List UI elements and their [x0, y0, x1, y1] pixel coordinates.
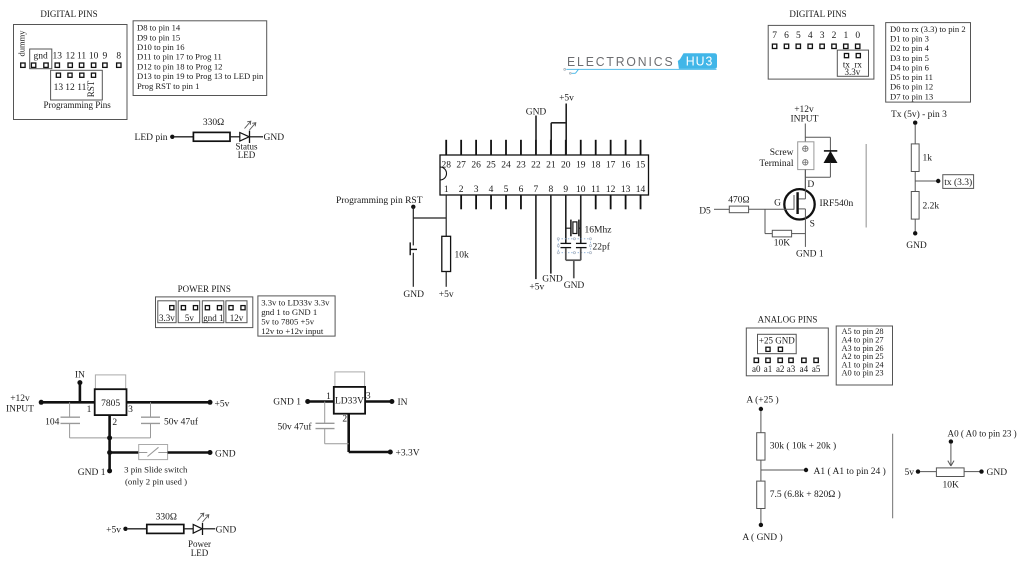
screw terminal box [798, 142, 814, 170]
resistor 330ohm power body [147, 525, 184, 534]
svg-text:1: 1 [444, 185, 449, 195]
resistor 470ohm body [729, 206, 748, 213]
svg-text:2: 2 [832, 31, 837, 41]
analog mapping table box [836, 326, 892, 385]
svg-text:9: 9 [103, 51, 108, 61]
wire 470 resistor to gate [749, 208, 794, 210]
svg-text:LED: LED [238, 150, 256, 160]
power pin 3.3v box [158, 301, 176, 323]
svg-text:GND: GND [264, 133, 285, 143]
svg-text:GND: GND [906, 241, 927, 251]
svg-text:Screw: Screw [770, 148, 794, 158]
svg-text:+5v: +5v [439, 290, 454, 300]
svg-text:27: 27 [456, 161, 466, 171]
svg-text:GND: GND [216, 526, 237, 536]
ground rail under 7805 [70, 437, 151, 439]
wire A(+25) to 30k [760, 411, 762, 433]
svg-text:19: 19 [576, 161, 586, 171]
node GND dot (slide switch) [208, 450, 213, 455]
svg-text:1: 1 [843, 31, 848, 41]
svg-text:ANALOG PINS: ANALOG PINS [758, 314, 818, 324]
slide switch box [139, 445, 168, 460]
capacitor 50v 47uf branch (ld33v) [324, 402, 326, 424]
capacitor 22pf right [576, 242, 587, 244]
right digital pins box [768, 25, 874, 79]
wire power LED to GND [203, 528, 216, 530]
wire 10K to source [792, 233, 806, 235]
svg-text:12v: 12v [230, 313, 244, 323]
svg-text:10: 10 [576, 185, 586, 195]
wire +12v input down [804, 124, 806, 142]
svg-text:a0: a0 [752, 364, 761, 374]
svg-text:gnd: gnd [33, 51, 48, 61]
svg-text:GND 1: GND 1 [273, 398, 301, 408]
programming pins box [51, 70, 103, 100]
svg-text:Terminal: Terminal [759, 159, 794, 169]
logo underline trace [566, 68, 716, 71]
wire RST dot down [412, 207, 414, 218]
push button switch [409, 242, 411, 255]
flyback diode [824, 150, 837, 152]
node A (GND) dot [759, 523, 763, 527]
svg-text:1: 1 [326, 392, 331, 402]
svg-text:23: 23 [516, 161, 526, 171]
wire resistor to power LED [184, 528, 193, 530]
svg-text:16: 16 [621, 161, 631, 171]
svg-text:D13 to pin 19 to Prog 13 to LE: D13 to pin 19 to Prog 13 to LED pin [137, 71, 264, 81]
svg-text:D6 to pin 12: D6 to pin 12 [890, 82, 933, 92]
svg-text:7: 7 [772, 31, 777, 41]
svg-text:6: 6 [519, 185, 524, 195]
svg-text:+3.3V: +3.3V [396, 448, 420, 458]
left digital pin mapping table box [133, 21, 267, 96]
svg-text:7: 7 [534, 185, 539, 195]
svg-text:22: 22 [531, 161, 541, 171]
crystal 16Mhz symbol [566, 227, 571, 229]
wire LED to GND [250, 136, 264, 138]
screw terminal screws [803, 146, 808, 151]
wire pin 10 down [580, 195, 582, 243]
svg-text:D3 to pin 5: D3 to pin 5 [890, 53, 929, 63]
left digital pins header box [14, 25, 128, 120]
svg-text:A0 ( A0 to pin 23 ): A0 ( A0 to pin 23 ) [948, 428, 1017, 438]
svg-text:50v 47uf: 50v 47uf [277, 421, 312, 432]
capacitor 22pf left [561, 242, 572, 244]
wire tap to A1 [761, 469, 804, 471]
svg-text:POWER PINS: POWER PINS [178, 284, 231, 294]
analog pins outer box [746, 328, 828, 376]
svg-text:LED pin: LED pin [135, 133, 168, 143]
wiper arrow [950, 444, 952, 466]
svg-text:DIGITAL PINS: DIGITAL PINS [789, 9, 846, 19]
svg-text:a2: a2 [776, 364, 785, 374]
mosfet IRF540n circle [784, 189, 814, 219]
node 5v dot (pot) [916, 469, 920, 473]
svg-text:A0 to pin 23: A0 to pin 23 [842, 369, 884, 378]
svg-text:1k: 1k [923, 154, 933, 164]
svg-text:A ( GND ): A ( GND ) [742, 532, 782, 543]
gnd box [30, 49, 52, 69]
potentiometer 10K body [936, 468, 964, 477]
svg-text:104: 104 [45, 418, 60, 428]
wire pin 1 down [445, 195, 447, 236]
svg-text:tx (3.3): tx (3.3) [944, 177, 972, 188]
wire gate junction down to 10K [764, 209, 766, 233]
svg-text:IN: IN [398, 398, 408, 408]
header pin row pads [21, 63, 25, 67]
status LED arrows [245, 122, 251, 129]
svg-text:3: 3 [474, 185, 479, 195]
wire slide switch to GND [168, 451, 210, 454]
svg-text:26: 26 [471, 161, 481, 171]
analog pin pads [754, 358, 758, 362]
wire diode branch bottom [829, 163, 831, 178]
right mapping table box [886, 23, 971, 103]
wire junction to tx(3.3) tap [915, 180, 936, 182]
IC U1 notch [440, 167, 447, 180]
wire 30k to 7.5 [760, 460, 762, 481]
node GND dot (divider) [913, 231, 917, 235]
regulator 7805 tab [95, 375, 125, 389]
svg-text:+5v: +5v [215, 399, 230, 409]
svg-text:a5: a5 [812, 364, 821, 374]
svg-text:10K: 10K [943, 481, 960, 491]
svg-text:D1 to pin 3: D1 to pin 3 [890, 33, 929, 43]
svg-text:11: 11 [591, 185, 600, 195]
svg-text:dummy: dummy [17, 30, 27, 57]
svg-text:5v: 5v [185, 313, 195, 323]
svg-text:+12v: +12v [794, 105, 814, 115]
svg-text:D0 to rx (3.3) to pin 2: D0 to rx (3.3) to pin 2 [890, 24, 966, 34]
svg-text:a1: a1 [764, 364, 773, 374]
wire gnd rail to slide switch [110, 451, 139, 454]
svg-text:IRF540n: IRF540n [820, 199, 854, 209]
svg-text:0: 0 [855, 31, 860, 41]
svg-text:GND 1: GND 1 [78, 468, 106, 478]
wire +5v to resistor (power led) [128, 528, 147, 530]
node RST dot [411, 205, 415, 209]
power pins mapping table box [258, 296, 335, 336]
svg-text:D: D [807, 180, 814, 190]
svg-text:GND: GND [564, 281, 585, 291]
node +3.3V dot [388, 450, 393, 455]
svg-text:D8 to pin 14: D8 to pin 14 [137, 23, 181, 33]
svg-text:Tx (5v) - pin 3: Tx (5v) - pin 3 [891, 109, 947, 120]
svg-text:12: 12 [65, 51, 75, 61]
IC top pin stubs [445, 140, 447, 155]
wire 1k to junction to 2.2k [914, 172, 916, 192]
svg-text:Programming Pins: Programming Pins [43, 100, 111, 110]
wire 7805 pin2 down to GND 1 [108, 415, 111, 471]
svg-text:5v to 7805 +5v: 5v to 7805 +5v [261, 317, 315, 327]
svg-text:A (+25 ): A (+25 ) [746, 394, 778, 405]
wire RST to pin 1 column [413, 217, 446, 219]
node A (+25) dot [759, 407, 763, 411]
regulator LD33V tab [335, 372, 365, 387]
wire diode branch top [805, 136, 830, 138]
node IN dot (ld33v) [389, 399, 394, 404]
svg-text:INPUT: INPUT [6, 404, 34, 414]
svg-text:10k: 10k [455, 251, 470, 261]
svg-text:13: 13 [54, 83, 64, 93]
svg-text:4: 4 [808, 31, 813, 41]
svg-text:GND: GND [542, 275, 563, 285]
power pin gnd 1 box [202, 301, 224, 323]
node LED pin dot [170, 135, 174, 139]
wire pin 22 to GND [535, 116, 537, 156]
status LED diode symbol [240, 133, 249, 142]
svg-text:GND: GND [987, 468, 1008, 478]
svg-text:IN: IN [75, 371, 85, 381]
power LED arrows [198, 514, 204, 521]
wire caps to GND [565, 248, 567, 260]
power pin 5v box [178, 301, 200, 323]
svg-text:6: 6 [784, 31, 789, 41]
IC bottom pin stubs [460, 195, 462, 209]
svg-text:2: 2 [112, 418, 117, 428]
svg-text:S: S [810, 219, 815, 229]
svg-text:8: 8 [116, 51, 121, 61]
resistor 7.5 body [757, 481, 765, 508]
wire to push button [412, 218, 414, 245]
resistor 10k pull-up body [442, 236, 451, 271]
svg-text:Prog RST to pin 1: Prog RST to pin 1 [137, 81, 199, 91]
node +5v dot (7805 output) [208, 400, 213, 405]
wire Tx to 1k [914, 125, 916, 144]
svg-text:11: 11 [77, 51, 86, 61]
wire screw terminal to drain [804, 170, 806, 199]
svg-text:25: 25 [486, 161, 496, 171]
svg-text:330Ω: 330Ω [203, 118, 224, 128]
analog +25 GND sub box [758, 334, 797, 353]
svg-text:3: 3 [366, 392, 371, 402]
svg-text:10K: 10K [774, 239, 791, 249]
svg-text:28: 28 [441, 161, 451, 171]
svg-text:5: 5 [796, 31, 801, 41]
wire 7.5 to A(GND) [760, 509, 762, 525]
svg-text:D2 to pin 4: D2 to pin 4 [890, 43, 930, 53]
svg-text:13: 13 [621, 185, 631, 195]
capacitor 50v 47uf branch (7805) [150, 402, 152, 417]
node A1 dot [804, 468, 808, 472]
svg-text:D12 to pin 18 to Prog 12: D12 to pin 18 to Prog 12 [137, 61, 222, 71]
wire GND1 to LD33V pin1 [308, 400, 334, 403]
wire 2.2k to GND [914, 219, 916, 233]
wire step pin 21 to pin 20 rail [551, 122, 566, 124]
wire pot to GND [964, 471, 979, 473]
svg-text:10: 10 [89, 51, 99, 61]
wire resistor to LED [230, 136, 240, 138]
svg-text:gnd 1: gnd 1 [203, 313, 223, 323]
wire 5v to pot [920, 471, 936, 473]
wire D5 to 470 resistor [714, 208, 729, 210]
node GND dot (pot) [979, 469, 983, 473]
wire +12v rail to +5v [41, 401, 210, 404]
svg-text:50v 47uf: 50v 47uf [164, 417, 199, 428]
node tx tap dot [936, 179, 940, 183]
node IN dot [77, 380, 82, 385]
svg-text:ELECTRONICS: ELECTRONICS [567, 54, 675, 69]
svg-text:9: 9 [563, 185, 568, 195]
svg-text:330Ω: 330Ω [156, 512, 177, 522]
wire pin 9 down [565, 195, 567, 243]
svg-text:2.2k: 2.2k [923, 202, 940, 212]
separator line (analog) [892, 434, 894, 519]
regulator LD33V body [334, 387, 365, 414]
svg-text:2: 2 [459, 185, 464, 195]
svg-text:12: 12 [65, 83, 75, 93]
svg-text:12: 12 [606, 185, 616, 195]
svg-text:17: 17 [606, 161, 616, 171]
svg-text:G: G [774, 199, 781, 209]
svg-text:HU3: HU3 [686, 54, 714, 69]
node GND 1 dot (ld33v) [305, 399, 310, 404]
svg-text:3: 3 [820, 31, 825, 41]
power LED diode symbol [193, 524, 202, 533]
IC U1 body [440, 155, 649, 195]
resistor 10K body [772, 230, 791, 237]
svg-text:16Mhz: 16Mhz [585, 226, 612, 236]
power pins outer box [156, 297, 253, 328]
svg-text:RST: RST [86, 80, 96, 97]
resistor 330ohm status body [193, 132, 230, 141]
svg-text:D11 to pin 17 to Prog 11: D11 to pin 17 to Prog 11 [137, 52, 222, 62]
svg-text:5: 5 [504, 185, 509, 195]
svg-text:+12v: +12v [10, 394, 30, 404]
wire 10k to +5v [445, 272, 447, 287]
svg-text:8: 8 [548, 185, 553, 195]
regulator 7805 body [95, 389, 127, 415]
svg-text:22pf: 22pf [593, 242, 611, 253]
svg-text:18: 18 [591, 161, 601, 171]
node A0 dot (pot) [949, 439, 953, 443]
svg-text:GND 1: GND 1 [796, 250, 824, 260]
svg-text:D5: D5 [699, 206, 711, 216]
svg-text:D7 to pin 13: D7 to pin 13 [890, 91, 933, 101]
svg-text:30k ( 10k + 20k ): 30k ( 10k + 20k ) [770, 441, 836, 452]
svg-text:13: 13 [53, 51, 63, 61]
tx rx sub box [837, 50, 868, 76]
svg-text:7805: 7805 [101, 399, 120, 409]
node tx (3.3) boxed label [943, 175, 974, 189]
resistor 2.2k body [911, 192, 919, 220]
svg-text:INPUT: INPUT [791, 115, 819, 125]
svg-text:Programming pin RST: Programming pin RST [336, 196, 423, 206]
svg-text:a3: a3 [787, 364, 796, 374]
wire pin 7 to +5v [535, 195, 537, 279]
svg-text:D4 to pin 6: D4 to pin 6 [890, 62, 930, 72]
logo HUB badge [678, 53, 717, 69]
svg-text:24: 24 [501, 161, 511, 171]
svg-text:3.3v: 3.3v [845, 67, 861, 77]
svg-text:D9 to pin 15: D9 to pin 15 [137, 32, 180, 42]
selection marquee around 22pf caps [558, 239, 590, 253]
power pin 12v box [226, 301, 247, 323]
svg-text:12v to +12v input: 12v to +12v input [261, 326, 324, 336]
wire pin 8 to GND [550, 195, 552, 274]
svg-text:A1 ( A1 to pin 24 ): A1 ( A1 to pin 24 ) [814, 466, 886, 477]
svg-text:470Ω: 470Ω [728, 196, 749, 206]
wire LD33V pin2 to +3.3V [347, 414, 350, 452]
wire push button to GND [412, 253, 414, 287]
svg-text:(only 2 pin used ): (only 2 pin used ) [125, 476, 187, 486]
svg-text:2: 2 [342, 414, 347, 424]
mosfet internal structure [804, 170, 806, 199]
svg-text:GND: GND [215, 449, 236, 459]
svg-text:3: 3 [128, 405, 133, 415]
svg-text:3 pin Slide switch: 3 pin Slide switch [124, 464, 188, 474]
wire +5v to pin 20 [565, 104, 567, 156]
svg-text:D5 to pin 11: D5 to pin 11 [890, 72, 933, 82]
svg-text:20: 20 [561, 161, 571, 171]
svg-text:D10 to pin 16: D10 to pin 16 [137, 42, 185, 52]
svg-text:gnd 1 to GND 1: gnd 1 to GND 1 [261, 307, 317, 317]
svg-text:15: 15 [636, 161, 646, 171]
node +12v input dot [39, 400, 44, 405]
programming pin pads [56, 73, 60, 77]
svg-text:4: 4 [489, 185, 494, 195]
resistor 1k body [911, 144, 919, 172]
svg-text:+25 GND: +25 GND [759, 335, 795, 345]
node +5v dot (power led) [123, 527, 127, 531]
node Tx dot [913, 121, 917, 125]
tx rx pads [844, 54, 848, 58]
capacitor 104 branch [69, 402, 71, 417]
svg-text:GND: GND [403, 290, 424, 300]
wire LD33V pin3 to IN [365, 400, 392, 403]
svg-text:5v: 5v [905, 468, 915, 478]
svg-text:LED: LED [191, 548, 209, 558]
svg-text:+5v: +5v [559, 94, 574, 104]
wire LED pin to resistor [175, 136, 194, 138]
svg-text:3.3v: 3.3v [159, 313, 175, 323]
separator line right of mosfet [865, 144, 867, 228]
wire IN down to +12v rail [79, 383, 82, 403]
svg-text:3.3v to LD33v 3.3v: 3.3v to LD33v 3.3v [261, 297, 330, 307]
svg-text:14: 14 [636, 185, 646, 195]
resistor 30k body [757, 433, 765, 460]
svg-text:+5v: +5v [106, 525, 121, 535]
svg-text:DIGITAL PINS: DIGITAL PINS [40, 9, 97, 19]
right digital pin pads [772, 44, 776, 48]
junction dots on pin2 wire [107, 435, 112, 440]
svg-text:a4: a4 [800, 364, 809, 374]
svg-text:7.5 (6.8k + 820Ω ): 7.5 (6.8k + 820Ω ) [770, 489, 841, 500]
svg-text:LD33V: LD33V [335, 397, 364, 407]
svg-text:1: 1 [87, 405, 92, 415]
svg-text:21: 21 [546, 161, 556, 171]
